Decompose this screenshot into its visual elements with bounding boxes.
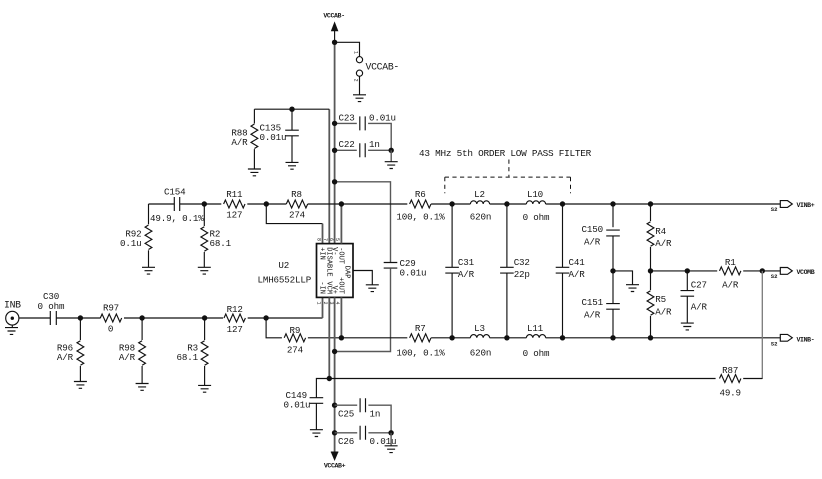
off-page connector VCOMB — [771, 268, 815, 281]
svg-text:R6: R6 — [415, 189, 426, 200]
pin 7 DISABLE — [322, 238, 332, 277]
wire R8 to -OUT node — [308, 203, 342, 205]
svg-text:VINB-: VINB- — [797, 336, 815, 343]
capacitor C30 — [38, 291, 65, 325]
wire C22 to ground — [390, 150, 392, 161]
resistor R7 — [396, 323, 445, 358]
svg-text:1: 1 — [353, 51, 359, 54]
off-page connector VINB+ — [771, 201, 815, 214]
connector pin 2 — [353, 70, 363, 82]
resistor R5 — [647, 268, 672, 338]
svg-text:A/R: A/R — [458, 269, 475, 280]
wire top rail -OUT to R6 — [339, 201, 408, 206]
svg-text:127: 127 — [227, 324, 243, 335]
resistor R8 — [286, 189, 307, 221]
svg-text:0 ohm: 0 ohm — [523, 212, 550, 223]
wire node to R9 — [266, 318, 282, 338]
svg-text:127: 127 — [226, 210, 242, 221]
svg-text:VCOMB: VCOMB — [797, 269, 815, 276]
wire VCM node to C149 — [316, 376, 332, 398]
resistor R6 — [396, 189, 445, 222]
wire L2 to L10 — [490, 201, 527, 206]
wire L3 to L11 — [490, 335, 527, 340]
svg-text:0: 0 — [108, 323, 113, 334]
svg-text:68.1: 68.1 — [210, 238, 232, 249]
ground at C150 C151 midpoint — [626, 285, 639, 292]
svg-text:C41: C41 — [569, 257, 586, 268]
svg-text:A/R: A/R — [655, 307, 672, 318]
ground below C149 — [310, 430, 323, 437]
capacitor C135 — [260, 109, 299, 162]
svg-text:0.01u: 0.01u — [284, 400, 311, 411]
wire node to +IN pin — [266, 204, 322, 244]
svg-text:0.01u: 0.01u — [400, 267, 427, 278]
svg-text:0.01u: 0.01u — [369, 112, 396, 123]
pin 5 -OUT — [334, 238, 344, 264]
svg-text:R97: R97 — [103, 303, 119, 314]
svg-text:R12: R12 — [227, 304, 243, 315]
resistor R4 — [647, 204, 672, 271]
capacitor C22 — [339, 139, 380, 157]
wire L10 to VINB+ tag — [546, 201, 781, 206]
port INB — [4, 300, 21, 328]
svg-text:5: 5 — [334, 238, 340, 241]
capacitor C150 — [582, 204, 620, 271]
ground below R88 — [248, 169, 261, 176]
ground below C26 — [385, 446, 398, 453]
wire R6 to L2 — [431, 201, 470, 206]
svg-text:VCCAB-: VCCAB- — [366, 61, 399, 72]
wire R11 to R8 — [247, 201, 286, 206]
svg-text:2: 2 — [322, 301, 328, 304]
pin 3 V+ — [328, 286, 338, 305]
wire R92 to C154 — [149, 203, 175, 205]
ground below R3 — [198, 385, 211, 392]
svg-text:+IN: +IN — [318, 247, 326, 260]
connector VCCAB- label — [366, 61, 399, 72]
capacitor C151 — [582, 271, 620, 338]
capacitor C23 — [339, 112, 396, 130]
wire C31 to bottom rail — [452, 257, 475, 338]
svg-text:274: 274 — [289, 210, 306, 221]
svg-text:S2: S2 — [771, 206, 778, 213]
svg-text:C154: C154 — [164, 186, 186, 197]
ground below R98 — [136, 384, 149, 391]
svg-text:L3: L3 — [474, 323, 485, 334]
wire R97 to R12 — [124, 315, 223, 320]
wire DISABLE net to R88 C135 — [254, 107, 329, 244]
svg-text:A/R: A/R — [231, 137, 248, 148]
resistor R3 — [177, 318, 208, 385]
svg-text:C151: C151 — [582, 297, 604, 308]
ground below R2 — [198, 267, 211, 274]
pin 1 -IN — [315, 281, 325, 304]
svg-text:C27: C27 — [691, 280, 707, 291]
resistor R12 — [224, 304, 245, 335]
svg-text:0 ohm: 0 ohm — [38, 301, 65, 312]
wire INB to C30 — [19, 317, 51, 319]
svg-text:1n: 1n — [369, 139, 380, 150]
ground below INB — [5, 328, 18, 335]
inductor L2 — [470, 189, 491, 222]
svg-text:1n: 1n — [370, 409, 381, 420]
wire pin 2 to ground — [359, 76, 361, 95]
ground below R92 — [142, 267, 155, 274]
svg-text:R9: R9 — [290, 325, 301, 336]
capacitor C25 — [338, 398, 380, 419]
svg-text:C31: C31 — [458, 257, 475, 268]
capacitor C149 — [284, 390, 324, 430]
filter annotation 43 MHz 5th ORDER LOW PASS FILTER — [419, 148, 592, 193]
net VCCAB- vertical bus to V- pin — [334, 42, 336, 243]
resistor R96 — [57, 318, 84, 382]
svg-text:R4: R4 — [655, 226, 666, 237]
svg-text:A/R: A/R — [655, 238, 672, 249]
svg-text:R7: R7 — [415, 323, 426, 334]
resistor R1 — [720, 257, 741, 290]
inductor L10 — [523, 189, 550, 223]
svg-text:R8: R8 — [291, 189, 302, 200]
svg-text:-IN: -IN — [318, 281, 326, 294]
svg-text:2: 2 — [353, 79, 359, 82]
svg-text:A/R: A/R — [584, 309, 601, 320]
pin 6 V- — [328, 238, 338, 256]
ground below R96 — [74, 382, 87, 389]
wire C26 row — [332, 430, 394, 435]
wire +OUT pin to bottom rail — [340, 297, 342, 337]
svg-text:R1: R1 — [725, 257, 736, 268]
svg-text:620n: 620n — [470, 347, 491, 358]
capacitor C29 — [384, 258, 427, 278]
wire -OUT pin to top rail — [340, 204, 342, 244]
inductor L11 — [523, 323, 550, 359]
wire C154 to R11 — [180, 201, 222, 206]
resistor R87 — [719, 365, 740, 398]
ground below connector — [353, 95, 366, 102]
svg-text:+OUT: +OUT — [336, 277, 344, 294]
svg-text:R87: R87 — [722, 365, 738, 376]
power flag VCCAB+ — [324, 452, 346, 469]
capacitor C27 — [681, 271, 708, 323]
capacitor C154 — [150, 186, 204, 224]
wire VCM feedback to R87 — [329, 378, 715, 380]
resistor R98 — [119, 318, 146, 384]
svg-text:VCCAB-: VCCAB- — [323, 12, 344, 19]
ground below C22 C23 — [385, 162, 398, 169]
resistor R9 — [284, 325, 305, 355]
svg-text:100, 0.1%: 100, 0.1% — [396, 211, 445, 222]
svg-text:INB: INB — [4, 300, 21, 311]
svg-text:43 MHz 5th ORDER LOW PASS FILT: 43 MHz 5th ORDER LOW PASS FILTER — [419, 148, 592, 159]
capacitor C26 — [338, 426, 396, 447]
svg-text:7: 7 — [322, 238, 328, 241]
ground below C135 — [286, 162, 299, 169]
inductor L3 — [470, 323, 491, 358]
ground below DAP — [366, 285, 379, 292]
svg-text:68.1: 68.1 — [177, 352, 199, 363]
svg-text:C25: C25 — [338, 409, 354, 420]
svg-text:C150: C150 — [582, 224, 603, 235]
wire C29 to V+ — [332, 268, 391, 354]
svg-text:274: 274 — [287, 345, 304, 356]
svg-text:-OUT: -OUT — [336, 247, 344, 264]
pin 4 +OUT — [334, 277, 344, 304]
svg-text:C23: C23 — [339, 112, 355, 123]
svg-text:A/R: A/R — [119, 352, 136, 363]
resistor R88 — [231, 109, 257, 169]
svg-text:S2: S2 — [771, 273, 778, 280]
svg-text:L10: L10 — [527, 189, 543, 200]
connector pin 1 — [353, 51, 363, 63]
svg-text:L2: L2 — [474, 189, 485, 200]
svg-text:C32: C32 — [514, 257, 530, 268]
wire R7 to L3 — [431, 335, 470, 340]
wire R87 to VCOMB vertical — [743, 378, 762, 380]
op-amp U2 LMH6552LLP — [257, 244, 353, 298]
svg-text:0 ohm: 0 ohm — [523, 348, 550, 359]
wire C150 C151 midpoint to ground — [610, 268, 632, 285]
svg-text:100, 0.1%: 100, 0.1% — [396, 347, 445, 358]
wire VCOMB node down to R87 — [761, 271, 763, 379]
wire R4 R5 node to R1 — [651, 268, 718, 273]
capacitor C41 — [556, 204, 586, 338]
ground below C27 — [681, 323, 694, 330]
wire R12 to -IN pin — [248, 297, 323, 320]
svg-text:A/R: A/R — [584, 237, 601, 248]
wire VCM pin down — [328, 297, 330, 378]
svg-text:6: 6 — [328, 238, 334, 241]
svg-text:A/R: A/R — [722, 279, 739, 290]
wire R9 to +OUT node — [308, 337, 342, 339]
svg-text:C26: C26 — [338, 436, 354, 447]
off-page connector VINB- — [771, 334, 815, 347]
svg-text:49.9: 49.9 — [719, 387, 740, 398]
pin DAP — [343, 266, 373, 285]
svg-text:0.1u: 0.1u — [120, 238, 141, 249]
wire C25 row — [332, 403, 391, 433]
svg-text:LMH6552LLP: LMH6552LLP — [257, 275, 311, 286]
wire C22 row — [332, 148, 394, 153]
svg-text:A/R: A/R — [691, 302, 708, 313]
wire V- to C29 — [332, 179, 391, 262]
wire C23 row — [332, 121, 391, 151]
pin 8 +IN — [315, 238, 325, 260]
svg-text:U2: U2 — [278, 260, 289, 271]
svg-text:49.9, 0.1%: 49.9, 0.1% — [150, 213, 204, 224]
resistor R97 — [100, 303, 121, 335]
svg-text:S2: S2 — [771, 341, 778, 348]
svg-text:0.01u: 0.01u — [260, 132, 287, 143]
pin 2 VCM — [322, 281, 332, 304]
svg-text:L11: L11 — [527, 323, 544, 334]
svg-text:VINB+: VINB+ — [797, 202, 815, 209]
power flag VCCAB- — [323, 12, 344, 42]
svg-text:8: 8 — [315, 238, 321, 241]
capacitor C32 — [500, 204, 530, 338]
svg-text:22p: 22p — [514, 269, 530, 280]
wire C26 to ground — [390, 433, 392, 446]
svg-text:R11: R11 — [226, 189, 243, 200]
wire bottom rail +OUT to R7 — [339, 335, 408, 340]
svg-text:620n: 620n — [470, 211, 491, 222]
wire R1 to VCOMB tag — [743, 268, 780, 273]
svg-text:C22: C22 — [339, 139, 355, 150]
resistor R11 — [224, 189, 245, 221]
svg-text:A/R: A/R — [569, 269, 586, 280]
svg-text:A/R: A/R — [57, 352, 74, 363]
svg-text:R5: R5 — [655, 294, 666, 305]
svg-text:DAP: DAP — [343, 266, 351, 279]
wire V+ pin down to VCCAB+ flag — [334, 297, 336, 452]
wire L11 to VINB- tag — [546, 335, 781, 340]
resistor R2 — [201, 204, 232, 267]
capacitor C31 — [445, 204, 459, 273]
svg-text:VCCAB+: VCCAB+ — [324, 462, 346, 469]
svg-text:1: 1 — [315, 301, 321, 304]
resistor R92 — [120, 204, 152, 267]
wire VCCAB- to connector pin 1 — [332, 40, 360, 57]
wire C30 to R97 — [56, 315, 100, 320]
